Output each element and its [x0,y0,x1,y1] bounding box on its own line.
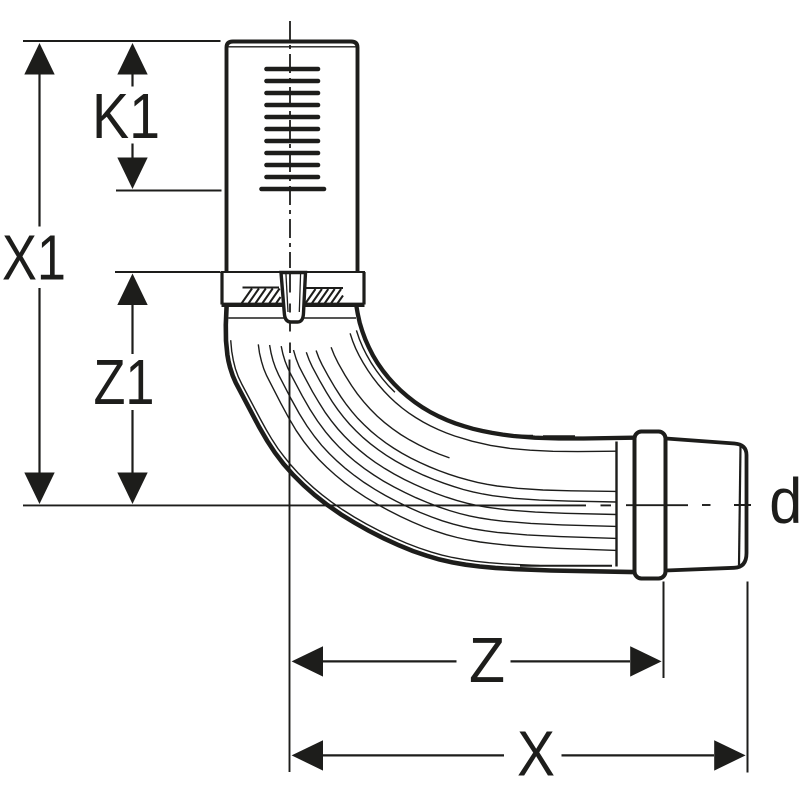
svg-text:Z1: Z1 [94,346,155,418]
svg-text:d: d [769,465,800,537]
svg-text:X1: X1 [2,222,66,294]
svg-text:Z: Z [469,624,505,696]
svg-text:X: X [517,718,555,790]
svg-text:K1: K1 [92,80,160,152]
